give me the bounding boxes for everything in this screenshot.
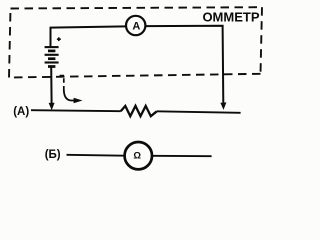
svg-text:A: A [132, 20, 140, 32]
current direction dashed arrow [63, 78, 65, 90]
wire ammeter to right side down [145, 26, 223, 103]
arrowhead left probe [49, 103, 55, 111]
svg-text:Ω: Ω [133, 151, 141, 162]
svg-text:(Б): (Б) [45, 149, 61, 161]
wire line B right [152, 155, 211, 157]
minus label [60, 75, 65, 77]
arrowhead right probe [220, 102, 226, 110]
resistor R under test [121, 106, 157, 116]
wire line A right [157, 111, 241, 113]
wire line A left [31, 110, 121, 111]
ohmmeter dashed enclosure box [9, 7, 262, 77]
svg-text:(А): (А) [13, 106, 29, 118]
ammeter U1 [126, 16, 145, 35]
wire battery top to ammeter [51, 26, 126, 47]
ohmmeter meter circle [125, 142, 152, 169]
battery BT1 [45, 47, 59, 66]
svg-text:ОММЕТР: ОММЕТР [202, 10, 259, 25]
plus label [57, 37, 61, 41]
wire line B left [67, 154, 125, 157]
wire battery bottom to line A [50, 67, 52, 103]
